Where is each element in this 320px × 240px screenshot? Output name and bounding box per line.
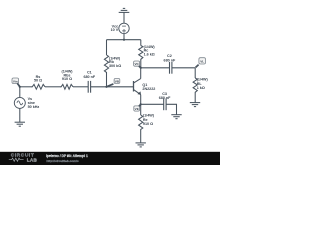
svg-text:680 nF: 680 nF [83, 75, 95, 79]
voltage source Vs [14, 97, 39, 109]
flipped ground (Vcc) [119, 8, 130, 12]
wire top ground to Vcc [123, 12, 125, 23]
node tag Vin [12, 78, 20, 86]
resistor Re [139, 114, 155, 143]
svg-text:VB: VB [115, 79, 120, 83]
svg-text:50 Ω: 50 Ω [34, 79, 42, 83]
svg-text:680 nF: 680 nF [164, 58, 176, 62]
svg-text:http://circuitlab.com/c: http://circuitlab.com/c [46, 159, 78, 163]
wire collector to C2 [141, 67, 170, 69]
svg-text:1 kΩ: 1 kΩ [197, 86, 205, 90]
resistor Rbs [60, 70, 73, 90]
wire Rbs to C1 [73, 86, 88, 88]
node tag VL [196, 58, 206, 68]
wire Vin junction down to Vs [19, 87, 21, 98]
resistor Rs [31, 75, 45, 89]
wire Vcc to rail [123, 34, 125, 40]
ground (Vs) [15, 122, 25, 126]
ground (RL) [190, 103, 200, 107]
svg-text:VL: VL [200, 59, 204, 63]
svg-text:Q1: Q1 [142, 83, 147, 87]
ground (C3) [171, 115, 181, 119]
svg-text:10 V: 10 V [111, 28, 119, 32]
junction dot rail [123, 39, 125, 41]
wire VL junction down to RL [194, 68, 196, 78]
wire C3 to ground [166, 104, 176, 114]
wire C1 to transistor base [91, 86, 134, 88]
wire emitter junction down to Re [140, 104, 142, 115]
svg-text:lpeterso / DP #3: Attempt 1: lpeterso / DP #3: Attempt 1 [46, 154, 88, 158]
CircuitLab logo [9, 153, 38, 163]
wire supply rail [107, 39, 141, 41]
svg-text:2N2222: 2N2222 [142, 87, 155, 91]
wire Vs to ground [19, 108, 21, 122]
wire Rs to Rbs [45, 86, 60, 88]
node tag VE [134, 105, 141, 111]
junction dot Vin [19, 86, 21, 88]
svg-text:Vin: Vin [13, 79, 18, 83]
svg-text:50 kHz: 50 kHz [28, 105, 40, 109]
svg-text:680 nF: 680 nF [159, 96, 171, 100]
wire Vin junction to Rs [20, 86, 31, 88]
ground (Re) [136, 143, 146, 147]
resistor RL [193, 78, 208, 103]
capacitor C3 [159, 92, 171, 110]
svg-text:LAB: LAB [27, 158, 38, 163]
wire rail down to Rc [140, 40, 142, 46]
capacitor C1 [83, 70, 95, 92]
node tag VC [134, 61, 141, 68]
node tag VB [107, 79, 120, 87]
junction dot collector [140, 67, 142, 69]
svg-text:VC: VC [134, 62, 139, 66]
svg-text:910 Ω: 910 Ω [62, 77, 72, 81]
resistor Rb [104, 55, 121, 87]
transistor Q1 [134, 79, 156, 95]
junction dot emitter [140, 103, 142, 105]
wire rail down to Rb [106, 40, 108, 55]
wire C2 to VL junction [172, 67, 195, 69]
svg-text:C1: C1 [87, 70, 92, 74]
svg-text:1.6 kΩ: 1.6 kΩ [144, 53, 155, 57]
voltage source Vcc [111, 23, 130, 33]
footer bar [0, 152, 220, 165]
resistor Rc [139, 45, 156, 68]
wire emitter pin [140, 95, 142, 105]
svg-text:910 Ω: 910 Ω [143, 122, 153, 126]
wire collector pin [140, 68, 142, 79]
svg-text:300 kΩ: 300 kΩ [109, 64, 121, 68]
junction dot Rb/base [105, 86, 107, 88]
wire emitter junction to C3 [141, 103, 164, 105]
capacitor C2 [164, 54, 176, 73]
svg-text:VE: VE [135, 107, 139, 111]
